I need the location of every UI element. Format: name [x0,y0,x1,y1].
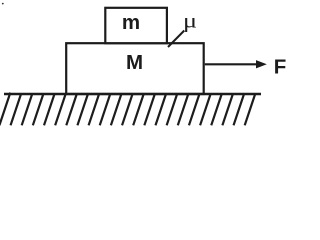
svg-text:M: M [126,51,143,74]
svg-text:F: F [274,56,287,79]
svg-text:μ: μ [183,10,197,33]
svg-text:m: m [122,11,140,34]
